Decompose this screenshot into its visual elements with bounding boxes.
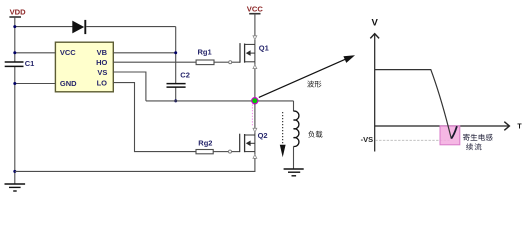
op-amp U1 gate driver block [55,42,113,92]
svg-text:HO: HO [96,58,107,67]
power VCC [247,4,264,13]
wire Q2 source down to bottom rail [254,152,256,155]
wire Rg2 to Q2 gate circle [213,151,228,153]
label 负载 [308,131,322,138]
resistor Rg2 [196,150,213,154]
svg-text:VS: VS [97,68,107,77]
node junction GND pin [13,82,16,85]
svg-text:LO: LO [97,78,108,87]
wire gate circle to Q2 gate [232,151,240,153]
wire HO pin to Rg1 [113,61,196,63]
arrow load current (dashed) [280,112,286,157]
svg-text:Rg2: Rg2 [198,138,212,147]
label 寄生电感 [463,134,493,141]
svg-text:Rg1: Rg1 [198,47,212,56]
wire Rg1 to Q1 gate circle [214,61,229,63]
node junction bottom rail [13,170,16,173]
node Q1 gate circle [229,61,232,64]
wire VCC pin stub [15,52,56,54]
wire C1 bottom down to ground rail [14,66,16,184]
wire switch node down to Q2 drain arrow [254,104,256,129]
waveform trace [375,70,452,139]
axis V [370,34,379,152]
transistor Q1 [240,43,255,63]
wire C2 bottom to switch rail [175,87,177,101]
ground (below inductor) [284,169,304,176]
node switch (green) [252,98,258,104]
highlight parasitic region (pink box) [440,126,460,145]
node junction VCC pin [13,51,16,54]
svg-text:VCC: VCC [247,4,264,13]
wire VCC down to Q1 drain [254,14,256,36]
axis T [375,122,510,131]
svg-text:T: T [517,124,522,131]
pin arrow Q2 source [253,154,257,158]
wire Q1 source down to switch node [254,62,256,65]
svg-text:C2: C2 [180,71,190,80]
wire LO pin right, down, right to Rg2 [113,83,196,152]
wire dashed freewheel path [251,105,253,127]
node junction VB [174,51,177,54]
svg-text:Q2: Q2 [258,131,268,140]
wire top rail right of diode to VB node [86,26,176,28]
svg-text:V: V [372,18,379,29]
waveform freewheel spike [451,126,457,138]
wire VB vertical: top rail down to C2 top [175,27,177,84]
capacitor C1 [5,62,24,66]
wire gate circle to Q1 gate [232,61,240,63]
wire Q1 source triangle to node [254,69,256,101]
node junction C2-switch rail [174,99,177,102]
power VDD [9,8,26,17]
wire inductor bottom to ground [293,146,295,169]
inductor L1 load [294,111,299,146]
capacitor C2 [167,84,186,88]
svg-text:VDD: VDD [10,8,27,17]
line -VS level dashed [375,139,449,141]
label 波形 [307,81,321,88]
node Q2 gate circle [229,150,232,153]
wire triangle to Q1 drain stub [254,40,256,45]
wire VS pin right then down to switch rail [113,72,146,101]
svg-text:-VS: -VS [361,135,374,144]
label 续流 [466,143,481,150]
wire VB pin stub [113,52,175,54]
svg-text:Q1: Q1 [259,43,269,52]
wire top rail left of diode [15,26,73,28]
ground (left) [5,184,26,191]
wire Q2 source to bottom rail corner [15,158,255,171]
resistor Rg1 [196,60,214,65]
wire triangle to Q2 drain stub [254,132,256,135]
arrow waveform pointer [259,55,355,97]
svg-text:GND: GND [60,79,77,88]
svg-text:VCC: VCC [60,48,76,57]
wire VDD vertical down to C1 top [14,17,16,62]
pin arrow Q1 source [253,65,257,69]
svg-text:C1: C1 [25,59,35,68]
pin arrow Q2 drain [253,128,257,132]
wire GND pin stub [15,83,56,85]
wire switch rail corner down to inductor [293,101,295,111]
svg-text:VB: VB [97,48,108,57]
diode D1 [72,20,85,34]
node junction VDD-rail [13,25,16,28]
pin arrow Q1 drain [253,36,257,40]
wire switch rail [146,100,294,102]
transistor Q2 [240,134,255,153]
